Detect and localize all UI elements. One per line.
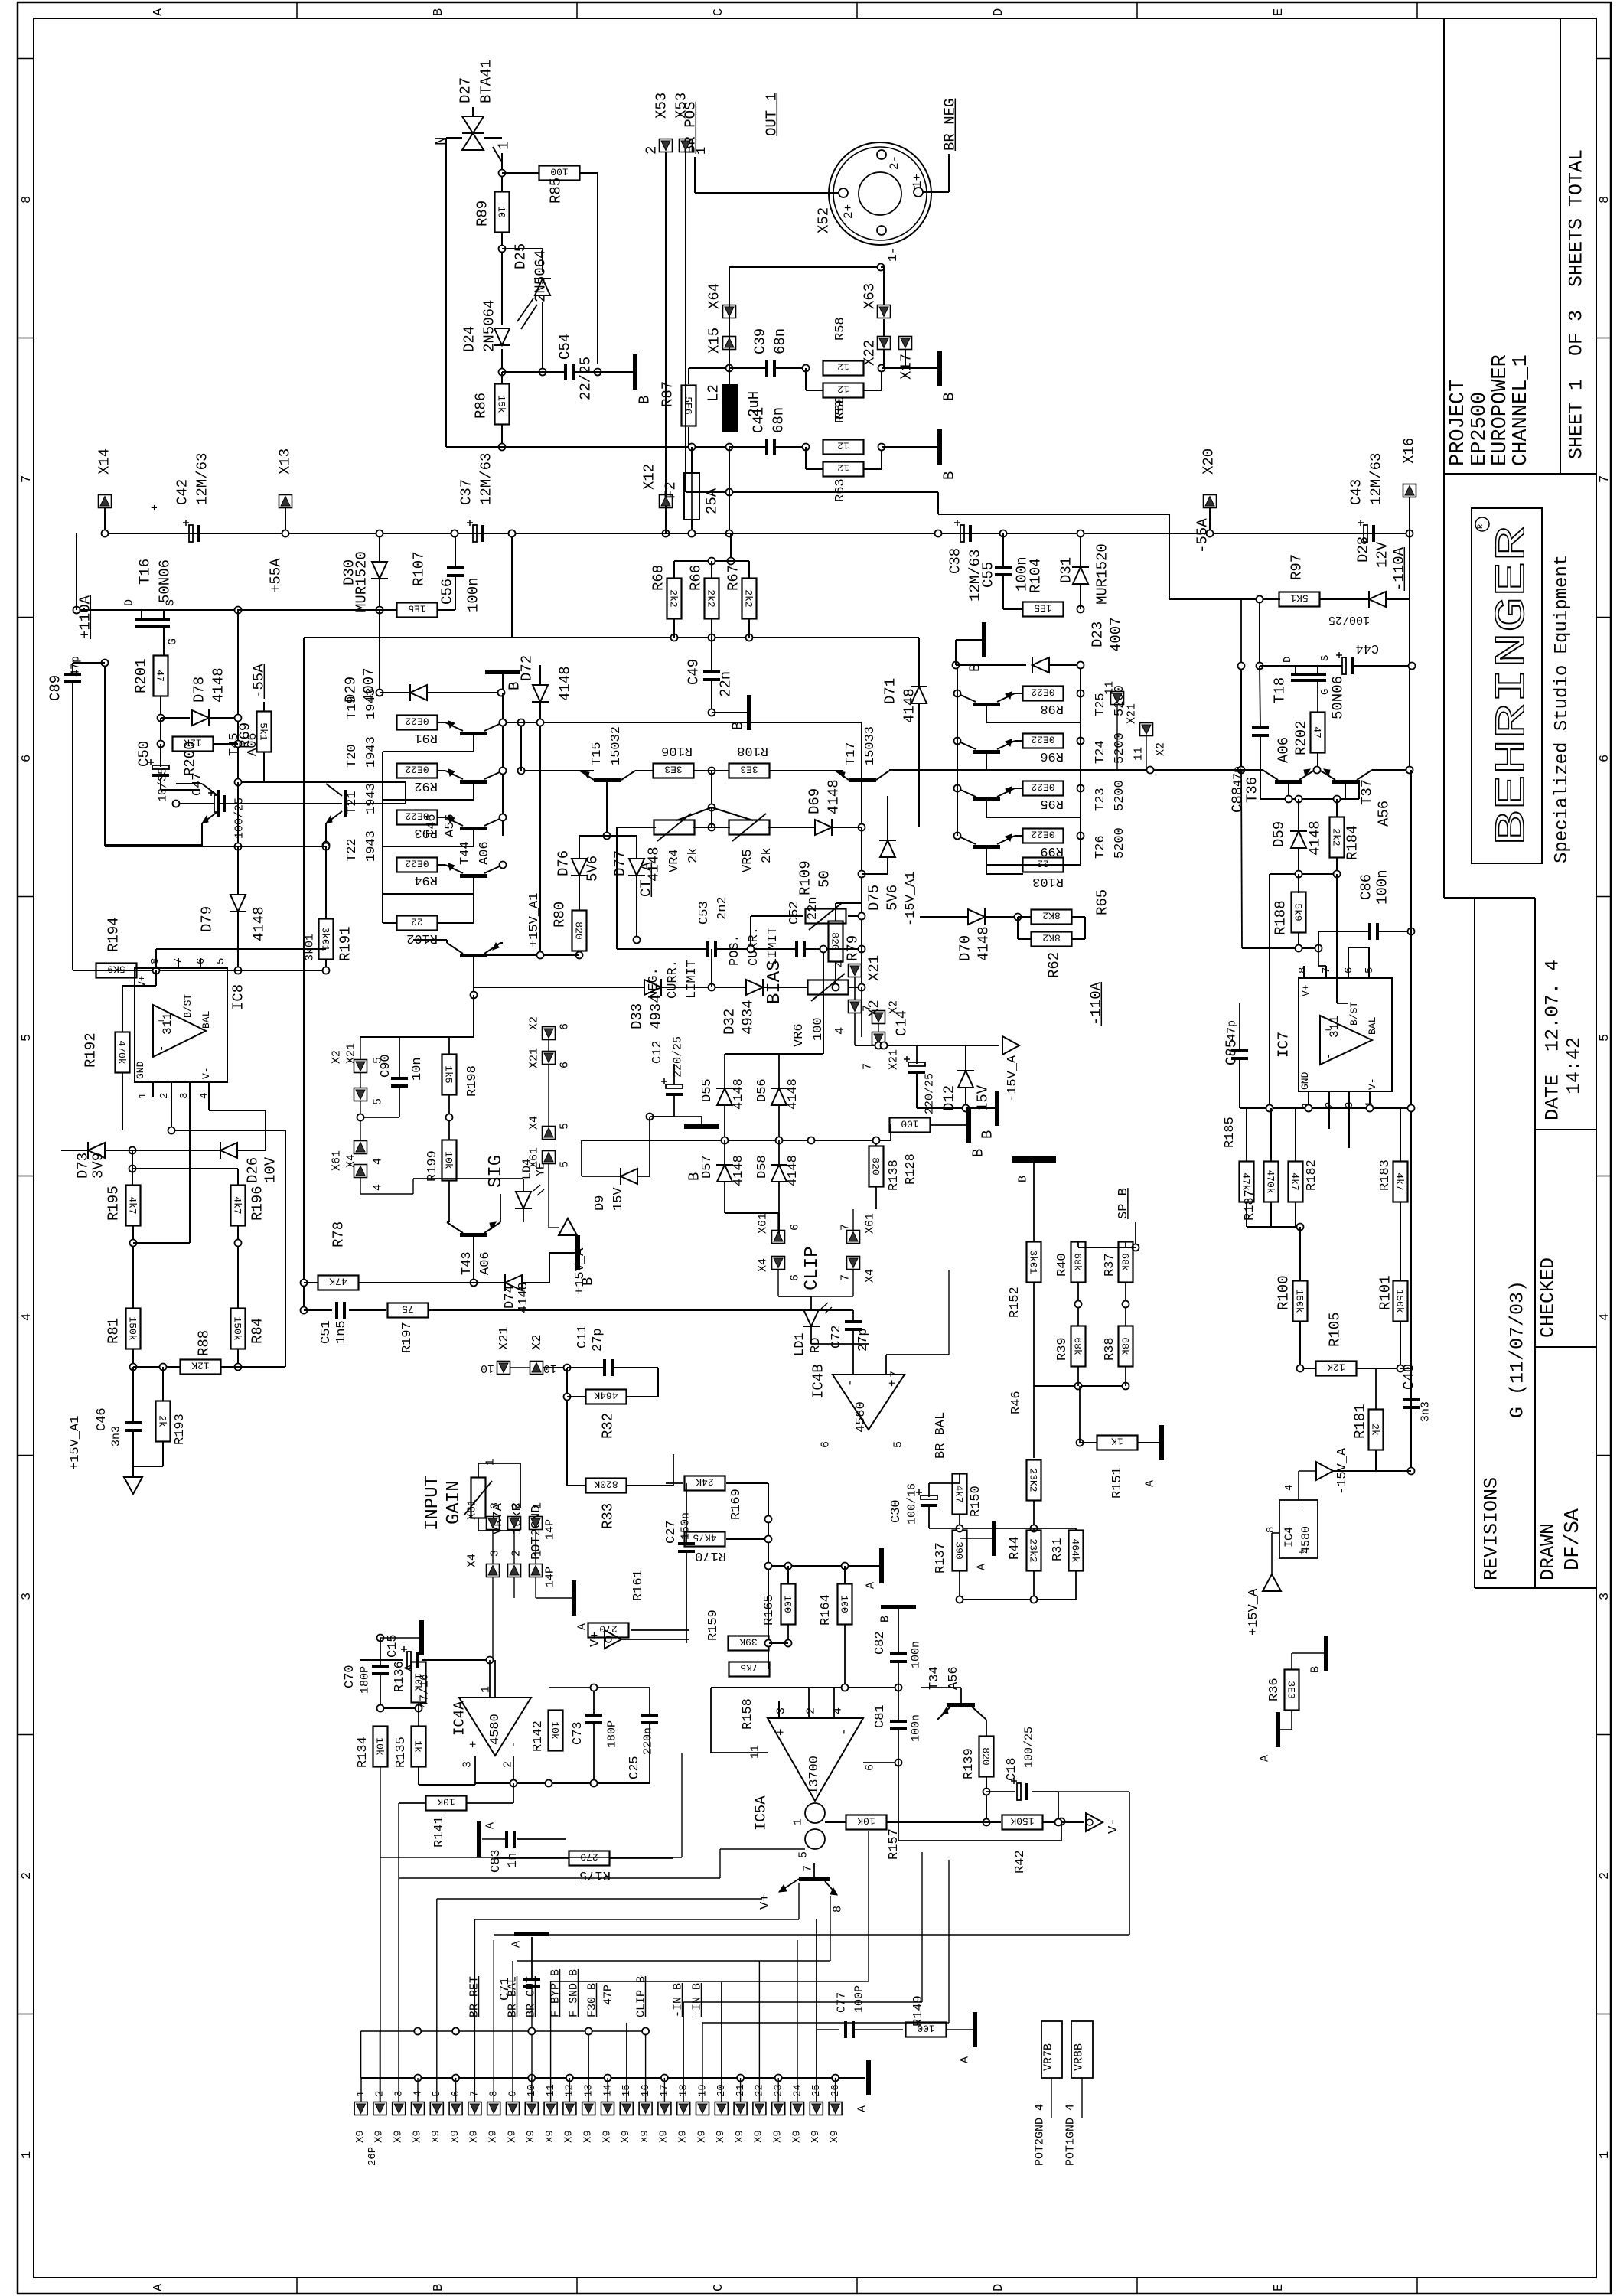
wire X53-2 down [663, 152, 670, 537]
svg-text:R152: R152 [1008, 1287, 1022, 1318]
svg-text:12V: 12V [1374, 541, 1390, 568]
svg-text:X9: X9 [734, 2130, 746, 2143]
svg-text:68n: 68n [770, 407, 787, 433]
label SP_B [1116, 1188, 1131, 1219]
svg-text:R96: R96 [1040, 748, 1064, 763]
svg-text:15V: 15V [611, 1187, 626, 1211]
pin X2 p10 [530, 1335, 558, 1375]
power transistor T25 5200 [957, 685, 1127, 722]
svg-text:T26: T26 [1094, 835, 1108, 859]
wire C52-C53 row [717, 946, 865, 953]
wire R161 [631, 1629, 689, 1631]
svg-text:X9: X9 [563, 2130, 575, 2143]
junction R104 right [1077, 606, 1084, 613]
svg-text:5: 5 [1598, 1034, 1612, 1042]
junction X15 node [726, 365, 733, 372]
resistor R135 1k [394, 1708, 426, 1768]
wire T44 emitter col [473, 957, 474, 995]
label 2- [888, 155, 901, 170]
wire R66 bottom [711, 618, 712, 638]
svg-text:150n: 150n [680, 1512, 693, 1540]
svg-text:1: 1 [495, 142, 512, 150]
svg-text:8: 8 [149, 958, 161, 964]
resistor R69 5k1 [236, 702, 271, 752]
pin X9-8 [487, 2091, 500, 2143]
transistor T17 15033 [836, 726, 889, 782]
pin X13 [276, 448, 293, 537]
diode D76 5V6 [555, 836, 607, 911]
capacitor C40 3n3 [1400, 1364, 1433, 1475]
opamp 311 triangle IC8 [153, 1005, 206, 1057]
transistor T43 A06 [447, 1222, 500, 1275]
wire rail y643 [686, 489, 938, 496]
svg-text:X9: X9 [829, 2130, 841, 2143]
wire IC4A inputs [513, 1756, 514, 1783]
svg-text:A: A [976, 1564, 989, 1570]
power +15V_A sig [549, 1194, 588, 1295]
svg-text:X21: X21 [528, 1048, 541, 1068]
wire x1226 bend [938, 492, 1003, 514]
svg-text:47p: 47p [1232, 766, 1245, 787]
svg-text:A06: A06 [1275, 737, 1292, 763]
diode D79 4148 [198, 846, 267, 970]
wire to ground B1 [598, 371, 633, 373]
ground B R128 [949, 1107, 986, 1157]
junction C15 right [487, 1657, 494, 1664]
pin X4 c6 [757, 1257, 802, 1282]
wire x1622 lower [1241, 770, 1242, 948]
IC4 power box [1265, 1485, 1318, 1558]
ground B C49 [712, 695, 751, 730]
svg-text:1: 1 [484, 1459, 497, 1466]
resistor R187 470k [1243, 1108, 1279, 1221]
IC8 pin numbers bottom [137, 1093, 210, 1099]
svg-text:150k: 150k [127, 1316, 139, 1340]
wire x930 1055-1081 [711, 807, 712, 827]
svg-text:SHEET 1 OF 3 SHEETS TOTAL: SHEET 1 OF 3 SHEETS TOTAL [1566, 149, 1588, 459]
label A06 T36 [1275, 737, 1292, 763]
capacitor C54 22/25 [556, 334, 594, 400]
svg-text:R169: R169 [729, 1489, 744, 1520]
box VR8B [1064, 2021, 1094, 2166]
ground A IC5A top [865, 1548, 885, 1589]
svg-text:R31: R31 [1051, 1538, 1065, 1561]
svg-text:E: E [1272, 8, 1286, 16]
svg-text:+: + [774, 1728, 788, 1736]
svg-text:X9: X9 [582, 2130, 595, 2143]
svg-text:47p: 47p [1226, 1020, 1239, 1041]
svg-text:R60: R60 [833, 396, 848, 419]
mosfet T18 50N06 [1271, 655, 1346, 719]
junction X9-21 bus [737, 2075, 744, 2102]
resistor R81 150k [105, 1309, 140, 1349]
svg-text:7: 7 [889, 1371, 902, 1378]
svg-text:+: + [149, 504, 162, 511]
rail y797 mid [238, 609, 397, 611]
junction bank right T26 [954, 833, 1084, 840]
svg-text:68k: 68k [1120, 1337, 1131, 1355]
svg-text:470k: 470k [116, 1040, 128, 1064]
svg-text:T34: T34 [927, 1666, 942, 1690]
resistor R31 464k [1034, 1528, 1084, 1600]
svg-text:D75: D75 [865, 885, 882, 911]
svg-text:1n5: 1n5 [334, 1320, 349, 1344]
svg-text:4: 4 [1598, 1313, 1612, 1321]
row y1239 [1242, 945, 1322, 952]
pin X21 p6a [528, 1048, 572, 1068]
svg-text:D: D [123, 599, 136, 606]
svg-text:D56: D56 [755, 1078, 770, 1102]
svg-text:-: - [1323, 1053, 1335, 1059]
pin X4 i2 [508, 1550, 523, 1577]
resistor R84 150k [231, 1309, 266, 1349]
IC8 pin stubs [153, 949, 209, 1243]
junction R97 right [1319, 598, 1369, 600]
svg-text:C37: C37 [458, 479, 474, 505]
capacitor C14 220/25 [0, 0, 1, 1]
pin X61 i3 [466, 1499, 502, 1530]
junction x904 [689, 530, 696, 537]
svg-text:15k: 15k [496, 395, 507, 413]
resistor R201 47 [132, 656, 168, 696]
resistor R170 4K75 [685, 1532, 772, 1564]
wire x741 down [564, 1368, 571, 1486]
resistor R198 1k5 [442, 1037, 480, 1097]
svg-text:0E22: 0E22 [1031, 687, 1054, 698]
svg-text:R165: R165 [762, 1594, 777, 1626]
svg-text:R79: R79 [844, 935, 861, 961]
junction rail797 x100 [73, 607, 80, 614]
pin X9-23 [772, 2084, 785, 2143]
svg-text:150k: 150k [232, 1316, 243, 1340]
resistor R32 464K [567, 1368, 658, 1439]
svg-text:C: C [712, 2284, 726, 2291]
svg-text:X9: X9 [393, 2130, 405, 2143]
svg-text:T25: T25 [1094, 693, 1108, 716]
resistor R63 12 [806, 447, 882, 502]
svg-text:X9: X9 [658, 2130, 670, 2143]
wire X2 p11 [1146, 736, 1147, 770]
svg-text:X14: X14 [96, 448, 112, 475]
svg-text:3: 3 [489, 1502, 502, 1509]
svg-text:24K: 24K [696, 1476, 714, 1488]
wire drive y1007 [521, 770, 594, 771]
emitter resistor R92 0E22 [397, 764, 438, 794]
capacitor C77 100p [816, 1985, 903, 2038]
svg-text:4148: 4148 [732, 1078, 746, 1110]
capacitor C55 100n [979, 533, 1030, 609]
svg-text:8: 8 [20, 196, 34, 204]
opamp IC4A 4580 [451, 1686, 531, 1768]
wire C81 col down [898, 1763, 1065, 1841]
label BR RET [468, 1976, 481, 2017]
svg-text:X2: X2 [528, 1016, 541, 1030]
pin X4 i3 [466, 1550, 502, 1577]
wire D24 to node [501, 349, 503, 372]
rail y833 [304, 533, 919, 638]
nest wire y2481 [437, 1898, 762, 1900]
fuse F2 25A [662, 447, 720, 520]
pin X9-6 [449, 2091, 462, 2143]
svg-text:6: 6 [559, 1062, 572, 1068]
power V- [1086, 1813, 1121, 1834]
wire y733 row [674, 560, 749, 562]
svg-text:R67: R67 [725, 565, 742, 591]
junction R84 bottom [235, 1349, 242, 1371]
svg-text:DATE 12.07. 4: DATE 12.07. 4 [1542, 960, 1564, 1120]
svg-text:V-: V- [200, 1067, 212, 1079]
svg-text:R151: R151 [1110, 1467, 1125, 1499]
junction x311 y938 [235, 715, 242, 722]
resistor R142 10k [531, 1711, 563, 1753]
svg-text:X52: X52 [815, 207, 832, 233]
diode D59 4148 [1270, 799, 1323, 874]
svg-text:C43: C43 [1348, 479, 1364, 505]
svg-text:1: 1 [355, 2091, 367, 2097]
capacitor C85 47p [1223, 1003, 1248, 1108]
pin X9-14 [601, 2084, 614, 2143]
svg-text:T43: T43 [460, 1251, 474, 1275]
resistor R66 2k2 [687, 561, 719, 619]
capacitor C27 150n [664, 1483, 695, 1643]
svg-text:C55: C55 [979, 562, 996, 588]
svg-text:GND: GND [135, 1061, 146, 1079]
resistor R128 100 [890, 1118, 950, 1186]
LED LD1 RD [793, 1296, 832, 1356]
svg-text:3: 3 [775, 1707, 788, 1714]
junction emitters T36 T37 [1314, 767, 1321, 774]
wire R184 col down [1336, 874, 1338, 1003]
svg-text:Specialized Studio Equipment: Specialized Studio Equipment [1552, 555, 1573, 863]
svg-text:1943: 1943 [364, 688, 379, 719]
nest wire y2616 [683, 1852, 922, 2002]
label D27 BTA41 [457, 60, 494, 103]
emitter resistor R95 0E22 [1023, 781, 1064, 811]
svg-text:R175: R175 [579, 1867, 611, 1882]
diode row y1503 [61, 1150, 88, 1151]
svg-text:POT2GND 4: POT2GND 4 [1034, 2104, 1047, 2166]
wire D25 branch [502, 249, 543, 272]
wire top row ic4a [549, 1684, 650, 1691]
left bank base bus [383, 752, 397, 923]
wire T44 base left [413, 940, 447, 943]
resistor R161 270 [588, 1570, 646, 1637]
svg-text:C46: C46 [95, 1407, 109, 1431]
row y1142 right [1270, 871, 1341, 1109]
label 1+ [911, 174, 924, 188]
wire T34 base [921, 1688, 961, 1703]
wire SP_B node [1133, 1222, 1139, 1251]
capacitor C71 47p [498, 1932, 549, 2102]
ground B C12 [650, 1117, 719, 1181]
svg-text:R108: R108 [737, 743, 768, 758]
IC7 box [1299, 978, 1392, 1091]
svg-text:4148: 4148 [645, 846, 662, 882]
ground A C83 [477, 1821, 505, 1857]
revision entry G (11/07/03) [1507, 1280, 1529, 1418]
wire left x137 column [102, 660, 109, 847]
svg-text:R103: R103 [1032, 874, 1064, 889]
junction R192 top [153, 967, 160, 974]
label CLIP [802, 1246, 823, 1290]
svg-text:1943: 1943 [364, 736, 379, 768]
resistor R102 22 [397, 916, 438, 946]
diode D74 4148 [474, 1253, 549, 1313]
power transistor T26 5200 [957, 827, 1127, 865]
pin X9-7 [468, 2091, 481, 2143]
svg-text:10K: 10K [437, 1796, 455, 1808]
capacitor C82 100n [873, 1609, 923, 1688]
svg-text:G (11/07/03): G (11/07/03) [1507, 1280, 1529, 1418]
svg-text:270: 270 [580, 1851, 598, 1863]
svg-text:100: 100 [839, 1595, 850, 1613]
svg-text:C12: C12 [650, 1040, 665, 1064]
junction y833 joints [671, 634, 753, 641]
svg-text:VR4: VR4 [667, 849, 682, 872]
junction X9-17 bus [661, 2075, 668, 2102]
label +110A left [77, 595, 93, 639]
svg-text:100n: 100n [1374, 869, 1390, 905]
svg-text:4148: 4148 [786, 1078, 800, 1110]
svg-text:2: 2 [20, 1872, 34, 1880]
svg-text:C86: C86 [1358, 874, 1374, 900]
svg-text:15032: 15032 [609, 726, 624, 765]
label 26P [367, 2147, 379, 2166]
title block outline [1444, 18, 1596, 1588]
svg-text:100/25: 100/25 [1023, 1727, 1036, 1768]
svg-text:0E22: 0E22 [405, 716, 429, 727]
pin X61 p5b [528, 1147, 572, 1168]
svg-text:B: B [432, 8, 446, 16]
svg-text:R185: R185 [1223, 1117, 1237, 1148]
trimmer VR5 2k [729, 814, 774, 872]
label -55A [250, 664, 267, 699]
svg-text:R44: R44 [1008, 1536, 1022, 1560]
wire R67 bottom [748, 618, 750, 638]
junction F2 top [689, 444, 696, 451]
svg-text:C44: C44 [1355, 641, 1379, 655]
diode D23 4007 [1032, 617, 1124, 673]
wire R109 [751, 913, 865, 950]
diode D72 4148 [518, 655, 573, 722]
wire x930 1007-1055 [709, 771, 715, 811]
wire BR_POS [695, 157, 839, 193]
junction R200 left [158, 741, 165, 748]
resistor R62 8K2 [1018, 917, 1085, 978]
svg-text:10/35: 10/35 [157, 768, 170, 802]
svg-text:BEHRINGER: BEHRINGER [1488, 526, 1537, 846]
svg-text:D55: D55 [700, 1078, 715, 1102]
svg-text:12M/63: 12M/63 [1367, 453, 1384, 505]
title text SHEET 1 OF 3 SHEETS TOTAL [1566, 149, 1588, 459]
svg-text:BAL: BAL [1367, 1017, 1378, 1035]
capacitor C50 10/35 [135, 741, 169, 802]
triac D27 [446, 107, 502, 173]
power transistor T24 5200 [957, 732, 1127, 770]
junction C37 left [451, 530, 458, 537]
wire R184col to IC7 [1337, 1003, 1348, 1004]
pin X9-24 [790, 2084, 803, 2143]
capacitor C46 3n3 [95, 1367, 142, 1466]
resistor R67 2k2 [725, 561, 756, 619]
junction T17 base 1142 [859, 871, 865, 878]
svg-text:X4: X4 [757, 1258, 770, 1272]
svg-text:68n: 68n [771, 328, 788, 354]
svg-text:EP2500: EP2500 [1468, 392, 1491, 466]
svg-text:D72: D72 [518, 655, 535, 681]
IC8 labels [135, 975, 246, 1079]
svg-text:2N5064: 2N5064 [532, 250, 549, 302]
junction bank right T23 [954, 785, 1084, 792]
svg-text:3n3: 3n3 [1420, 1401, 1433, 1422]
row y2090 [957, 1596, 1077, 1603]
wire R79 top [836, 902, 862, 904]
junction L2 node [726, 444, 733, 451]
svg-text:R183: R183 [1378, 1159, 1393, 1191]
junction D30 bottom [376, 607, 383, 614]
svg-text:C11: C11 [575, 1325, 590, 1349]
wire T43 base [471, 1237, 478, 1287]
svg-text:D27: D27 [457, 77, 474, 103]
svg-text:4148: 4148 [732, 1155, 746, 1186]
wire X9-1 riser [360, 2078, 362, 2102]
wire node row [502, 371, 566, 373]
label 1- [886, 247, 900, 262]
svg-text:390: 390 [953, 1541, 965, 1559]
junction C37 right [509, 530, 516, 537]
svg-text:5: 5 [892, 1441, 905, 1448]
pin X61 c7 [839, 1213, 877, 1244]
svg-text:R196: R196 [249, 1186, 266, 1221]
resistor R44 23k2 [1008, 1531, 1041, 1600]
svg-text:R107: R107 [410, 551, 427, 586]
svg-text:47: 47 [1312, 726, 1323, 739]
junction R201 bottom [158, 696, 165, 722]
capacitor C81 100n [873, 1688, 923, 1763]
svg-text:LIMIT: LIMIT [685, 960, 699, 999]
svg-text:820: 820 [573, 921, 585, 939]
wire R158 row [769, 1642, 788, 1644]
svg-text:11: 11 [749, 1745, 762, 1759]
svg-text:3E3: 3E3 [740, 764, 758, 775]
opamp IC5A 13700 [749, 1707, 877, 1858]
transistor T36 [1244, 769, 1315, 803]
label POS CURR LIMIT [728, 927, 781, 966]
svg-text:X9: X9 [411, 2130, 423, 2143]
svg-text:4148: 4148 [901, 688, 918, 723]
junction y733 x930 [709, 558, 715, 565]
pin X9-12 [563, 2084, 576, 2143]
svg-text:150k: 150k [1294, 1289, 1305, 1313]
pin X15 [706, 328, 735, 354]
wire y944 bus [500, 719, 522, 726]
svg-text:EUROPOWER: EUROPOWER [1489, 354, 1512, 466]
SCR D24 2N5064 [494, 305, 537, 345]
opamp IC4B 4580 [810, 1364, 905, 1448]
svg-text:X4: X4 [528, 1116, 541, 1130]
svg-text:2n2: 2n2 [715, 896, 730, 920]
capacitor C90 10n [379, 1037, 425, 1117]
svg-text:X9: X9 [696, 2130, 708, 2143]
svg-text:100: 100 [550, 166, 568, 178]
svg-text:R105: R105 [1326, 1312, 1343, 1347]
power transistor T19 1943 [345, 688, 503, 752]
DF/SA text [1562, 1508, 1585, 1570]
svg-text:LD1: LD1 [793, 1332, 807, 1356]
wire X9-9 riser [512, 1961, 513, 2102]
svg-text:D69: D69 [806, 788, 823, 814]
resistor R192 470k [82, 970, 156, 1130]
